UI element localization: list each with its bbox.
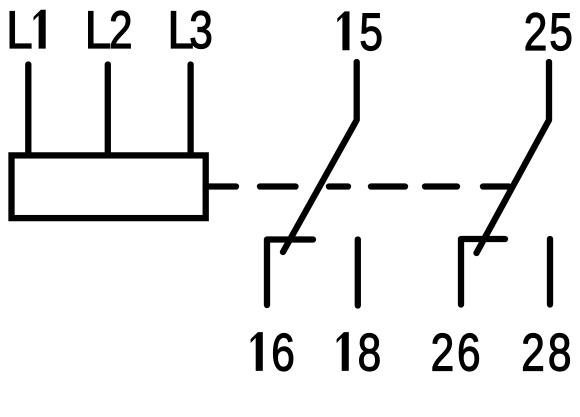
terminal 26 bracket bbox=[461, 239, 505, 305]
linkage dash stub bbox=[206, 183, 236, 189]
node label L2 bbox=[85, 0, 133, 60]
wire L3 bbox=[187, 65, 193, 156]
wire L2 bbox=[105, 65, 111, 156]
contact blade 15 bbox=[283, 62, 357, 252]
terminal 18 stub bbox=[355, 240, 361, 306]
svg-text:6: 6 bbox=[457, 324, 481, 383]
svg-text:3: 3 bbox=[189, 2, 213, 61]
svg-text:L: L bbox=[6, 0, 33, 60]
svg-text:2: 2 bbox=[524, 3, 548, 62]
terminal label 28 bbox=[521, 324, 571, 383]
terminal label 25 bbox=[524, 3, 573, 62]
svg-text:2: 2 bbox=[431, 324, 455, 383]
svg-text:L: L bbox=[85, 0, 112, 60]
svg-text:8: 8 bbox=[358, 324, 382, 383]
wire L1 bbox=[25, 65, 31, 156]
svg-text:5: 5 bbox=[359, 3, 383, 62]
node label L1 bbox=[6, 0, 45, 60]
linkage dash 3 bbox=[329, 183, 348, 189]
svg-text:2: 2 bbox=[109, 2, 133, 61]
terminal label 15 bbox=[338, 3, 383, 62]
linkage dash 5 bbox=[425, 183, 457, 189]
terminal 16 bracket bbox=[267, 240, 313, 306]
svg-text:6: 6 bbox=[271, 324, 295, 383]
terminal 28 stub bbox=[547, 239, 553, 305]
terminal label 26 bbox=[431, 324, 481, 383]
terminal label 16 bbox=[251, 324, 295, 383]
linkage dash 2 bbox=[260, 183, 296, 189]
relay measuring box bbox=[12, 155, 206, 218]
contact blade 25 bbox=[477, 62, 550, 253]
svg-text:2: 2 bbox=[521, 324, 545, 383]
linkage dash 6 bbox=[483, 183, 509, 189]
svg-text:5: 5 bbox=[549, 3, 573, 62]
linkage dash 4 bbox=[371, 183, 405, 189]
terminal label 18 bbox=[337, 324, 381, 383]
svg-text:8: 8 bbox=[548, 324, 572, 383]
node label L3 bbox=[167, 0, 213, 60]
